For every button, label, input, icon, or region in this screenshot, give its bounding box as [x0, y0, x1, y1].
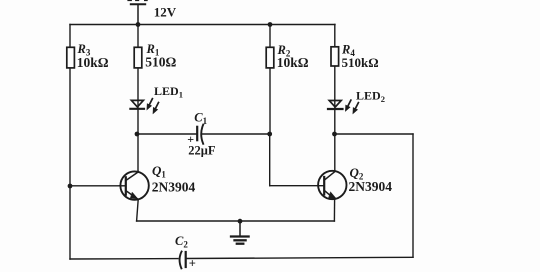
wire: C1 coupling wire: [137, 133, 197, 135]
resistor R4: [331, 47, 339, 66]
svg-text:10kΩ: 10kΩ: [77, 55, 109, 70]
wire: Q1 base horizontal: [70, 185, 126, 187]
wire: bottom rail left of C2: [70, 258, 178, 260]
capacitor C1: [197, 125, 203, 144]
wire: R1 / LED1 / Q1 collector branch: [137, 25, 139, 172]
svg-text:C2: C2: [175, 234, 188, 250]
svg-text:LED1: LED1: [154, 84, 183, 99]
junction: R2 top: [268, 22, 273, 27]
LED LED1: [130, 99, 158, 114]
wire: emitter rail: [137, 220, 335, 222]
svg-text:2N3904: 2N3904: [349, 179, 393, 194]
wire: +12V top rail: [70, 24, 335, 26]
wire: R2 to Q2 base vertical: [269, 134, 271, 186]
wire: bottom rail right of C2: [186, 257, 413, 258]
svg-text:LED2: LED2: [356, 89, 385, 104]
svg-text:C1: C1: [194, 110, 207, 126]
junction: C1 left node: [135, 132, 140, 137]
svg-text:2N3904: 2N3904: [152, 180, 196, 195]
svg-text:510Ω: 510Ω: [145, 54, 176, 69]
transistor Q1: [120, 171, 149, 199]
resistor R3: [67, 47, 75, 68]
wire: Q2 emitter lead: [333, 199, 335, 221]
svg-text:12V: 12V: [154, 5, 177, 20]
resistor R1: [134, 47, 142, 68]
junction: C1 right node: [267, 132, 272, 137]
wire: Q2 collector node to right vertical: [335, 133, 414, 135]
junction: ground node: [238, 219, 243, 224]
junction: Q1 base node: [68, 184, 73, 189]
svg-text:+: +: [189, 256, 196, 270]
wire: R2 branch: [269, 25, 271, 135]
transistor Q2: [318, 171, 347, 199]
wire: left vertical (Q1 base / C2 branch): [69, 25, 71, 260]
junction: 12V tap: [136, 22, 141, 27]
wire: C1 right to R2 branch: [202, 133, 270, 135]
wire: R4 / LED2 / Q2 collector branch: [334, 25, 336, 172]
svg-text:Q1: Q1: [152, 163, 166, 180]
wire: Q2 base horizontal: [270, 185, 325, 187]
LED LED2: [328, 100, 358, 114]
power supply 12V terminal: [128, 1, 147, 25]
svg-text:510kΩ: 510kΩ: [342, 55, 379, 70]
resistor R2: [266, 47, 274, 68]
wire: Q1 emitter lead: [137, 199, 139, 221]
junction: Q2 collector node: [332, 132, 337, 137]
ground: [231, 221, 249, 244]
capacitor C2: [180, 252, 186, 269]
wire: right vertical (Q2 collector to C2): [412, 134, 414, 257]
svg-text:10kΩ: 10kΩ: [277, 55, 309, 70]
svg-text:22μF: 22μF: [188, 144, 216, 158]
